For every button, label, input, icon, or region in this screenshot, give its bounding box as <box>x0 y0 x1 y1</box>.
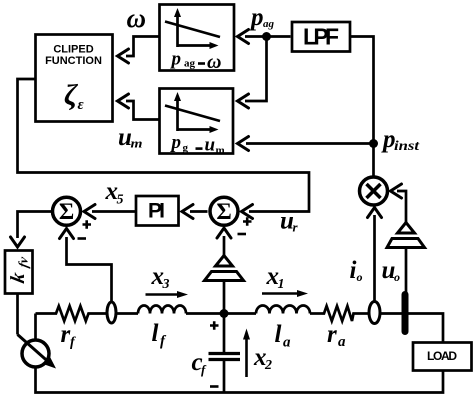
svg-text:f: f <box>201 362 207 377</box>
svg-text:ag: ag <box>184 58 196 70</box>
svg-text:PI: PI <box>148 200 165 223</box>
svg-text:p: p <box>249 4 264 31</box>
svg-text:inst: inst <box>394 139 420 154</box>
svg-text:r: r <box>293 220 299 235</box>
svg-text:p: p <box>170 49 182 70</box>
svg-text:f: f <box>70 335 76 350</box>
svg-text:ag: ag <box>263 18 275 30</box>
svg-text:2: 2 <box>264 358 272 373</box>
svg-text:5: 5 <box>117 193 124 208</box>
svg-text:g: g <box>183 142 189 154</box>
svg-text:p: p <box>170 132 182 153</box>
svg-text:LOAD: LOAD <box>427 349 457 363</box>
svg-text:a: a <box>338 334 346 350</box>
svg-text:3: 3 <box>162 277 170 292</box>
svg-text:CLIPED: CLIPED <box>53 44 93 56</box>
svg-text:ε: ε <box>78 97 85 113</box>
svg-text:l: l <box>152 320 159 347</box>
svg-text:LPF: LPF <box>303 24 339 50</box>
svg-text:ω: ω <box>207 51 221 73</box>
svg-text:i: i <box>350 257 357 284</box>
svg-text:Σ: Σ <box>59 199 74 225</box>
svg-text:o: o <box>357 270 363 284</box>
svg-text:k: k <box>7 270 29 285</box>
svg-text:ω: ω <box>127 3 147 33</box>
svg-text:a: a <box>283 335 291 351</box>
svg-text:m: m <box>131 136 143 151</box>
svg-text:l: l <box>275 321 282 348</box>
svg-text:FUNCTION: FUNCTION <box>45 55 102 67</box>
svg-text:r: r <box>61 321 71 348</box>
svg-text:r: r <box>327 321 337 348</box>
svg-text:u: u <box>205 135 216 156</box>
svg-text:fv: fv <box>16 255 31 268</box>
svg-text:1: 1 <box>278 277 285 292</box>
svg-text:o: o <box>394 270 400 284</box>
svg-text:f: f <box>160 334 167 350</box>
svg-text:m: m <box>216 145 225 157</box>
svg-text:Σ: Σ <box>216 199 231 225</box>
